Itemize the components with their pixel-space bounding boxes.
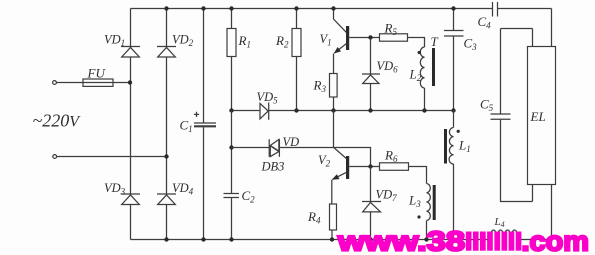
wire diac branch	[232, 148, 371, 167]
svg-text:VD: VD	[283, 135, 300, 149]
node diac tap on C2 column	[229, 145, 233, 149]
phase dot L1	[457, 130, 460, 133]
node top rail at R1	[229, 6, 233, 10]
core of L1	[444, 129, 447, 164]
node C3 top on rail	[451, 6, 455, 10]
wire V1 base	[349, 37, 379, 39]
diode VD3	[121, 194, 140, 205]
node VD6 anode on mid rail	[368, 108, 372, 112]
node mid rail left (R1/C2 node)	[229, 108, 233, 112]
wire lower AC feed	[57, 156, 167, 158]
resistor R6	[380, 163, 427, 184]
diode VD6	[362, 38, 380, 111]
diode VD7	[362, 167, 381, 240]
node L3 bottom	[424, 237, 428, 241]
diode VD1	[121, 47, 140, 58]
node L1 bottom	[451, 237, 455, 241]
svg-text:.com: .com	[522, 226, 590, 255]
resistor R1	[227, 9, 236, 111]
svg-text:~220V: ~220V	[33, 111, 82, 131]
wire left bridge column	[130, 9, 132, 240]
terminal lower AC input	[53, 155, 57, 159]
svg-text:EL: EL	[530, 109, 546, 124]
capacitor C3	[444, 9, 464, 111]
node R4 bottom	[330, 237, 334, 241]
node mid rail at R2	[294, 108, 298, 112]
core of transformer T	[432, 48, 435, 86]
node bottom rail at C1	[201, 237, 205, 241]
inductor L1	[449, 111, 453, 240]
label + polarity	[194, 112, 199, 117]
diode VD2	[157, 47, 176, 58]
node C3 bottom / L1 top	[451, 108, 455, 112]
transistor V2	[332, 111, 349, 205]
terminal upper AC input	[53, 81, 57, 85]
node top rail at R2	[294, 6, 298, 10]
node V1 emitter / V2 collector midpoint	[331, 108, 335, 112]
svg-text:FU: FU	[87, 66, 107, 81]
svg-text:www.38: www.38	[337, 226, 465, 255]
wire mid rail (half-bridge midpoint)	[232, 110, 454, 112]
svg-text:T: T	[431, 34, 439, 49]
capacitor C2	[224, 111, 240, 240]
resistor R5	[380, 34, 425, 47]
winding L2 of transformer T	[420, 47, 424, 111]
wire V2 base	[349, 166, 379, 168]
watermark glyph bars	[466, 232, 522, 251]
resistor R2	[292, 9, 301, 111]
wire top rail	[131, 8, 552, 10]
transistor V1	[334, 9, 350, 74]
node C2 bottom	[229, 237, 233, 241]
resistor R4	[330, 204, 337, 240]
node V1 collector on top rail	[331, 6, 335, 10]
capacitor C4	[493, 2, 498, 17]
capacitor C5	[491, 29, 533, 202]
capacitor C1 (electrolytic)	[194, 9, 216, 240]
node top rail at bridge right leg	[164, 6, 168, 10]
fuse FU	[83, 79, 113, 86]
inductor L4	[490, 230, 518, 239]
wire right bridge column	[166, 9, 168, 240]
diode VD5	[260, 103, 269, 120]
svg-text:DB3: DB3	[261, 160, 285, 174]
node V1 base junction	[368, 35, 372, 39]
node VD7 bottom	[368, 237, 372, 241]
node lower AC junction	[164, 154, 168, 158]
resistor R3	[330, 74, 338, 111]
node fuse-bridge junction	[128, 80, 132, 84]
diac VD (DB3)	[269, 139, 279, 157]
wire fuse feed	[56, 82, 130, 84]
node bottom rail at bridge right leg	[164, 237, 168, 241]
node V2 base junction	[368, 164, 372, 168]
node top rail at C1	[201, 6, 205, 10]
node L2 bottom on mid rail	[422, 108, 426, 112]
winding L3 of transformer T	[427, 184, 431, 240]
wire bottom rail	[131, 239, 552, 241]
core of transformer T lower	[433, 185, 436, 220]
phase dot L3	[417, 215, 420, 218]
diode VD4	[157, 194, 176, 205]
lamp EL	[528, 9, 556, 240]
phase dot L2	[418, 51, 421, 54]
